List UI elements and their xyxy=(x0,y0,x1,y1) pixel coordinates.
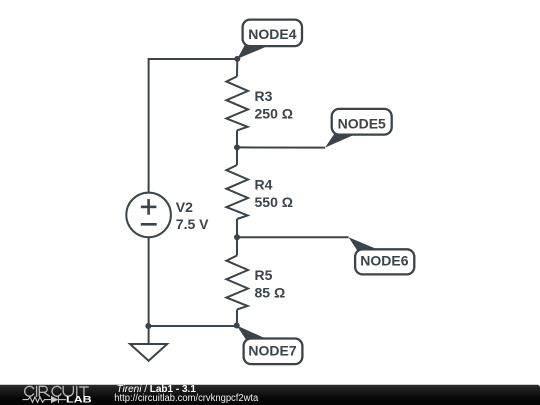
svg-text:85 Ω: 85 Ω xyxy=(255,285,286,301)
svg-text:R3: R3 xyxy=(255,88,273,104)
svg-text:NODE6: NODE6 xyxy=(360,252,408,268)
svg-text:250 Ω: 250 Ω xyxy=(255,106,293,122)
svg-text:NODE5: NODE5 xyxy=(338,116,386,132)
svg-text:NODE7: NODE7 xyxy=(248,342,296,358)
svg-text:NODE4: NODE4 xyxy=(248,26,296,42)
svg-text:550 Ω: 550 Ω xyxy=(255,194,293,210)
svg-text:LAB: LAB xyxy=(66,395,92,405)
svg-text:V2: V2 xyxy=(176,199,193,215)
svg-text:R4: R4 xyxy=(255,177,273,193)
svg-text:7.5 V: 7.5 V xyxy=(176,216,209,232)
svg-text:R5: R5 xyxy=(255,267,273,283)
svg-text:http://circuitlab.com/crvkngpc: http://circuitlab.com/crvkngpcf2wta xyxy=(114,393,258,404)
